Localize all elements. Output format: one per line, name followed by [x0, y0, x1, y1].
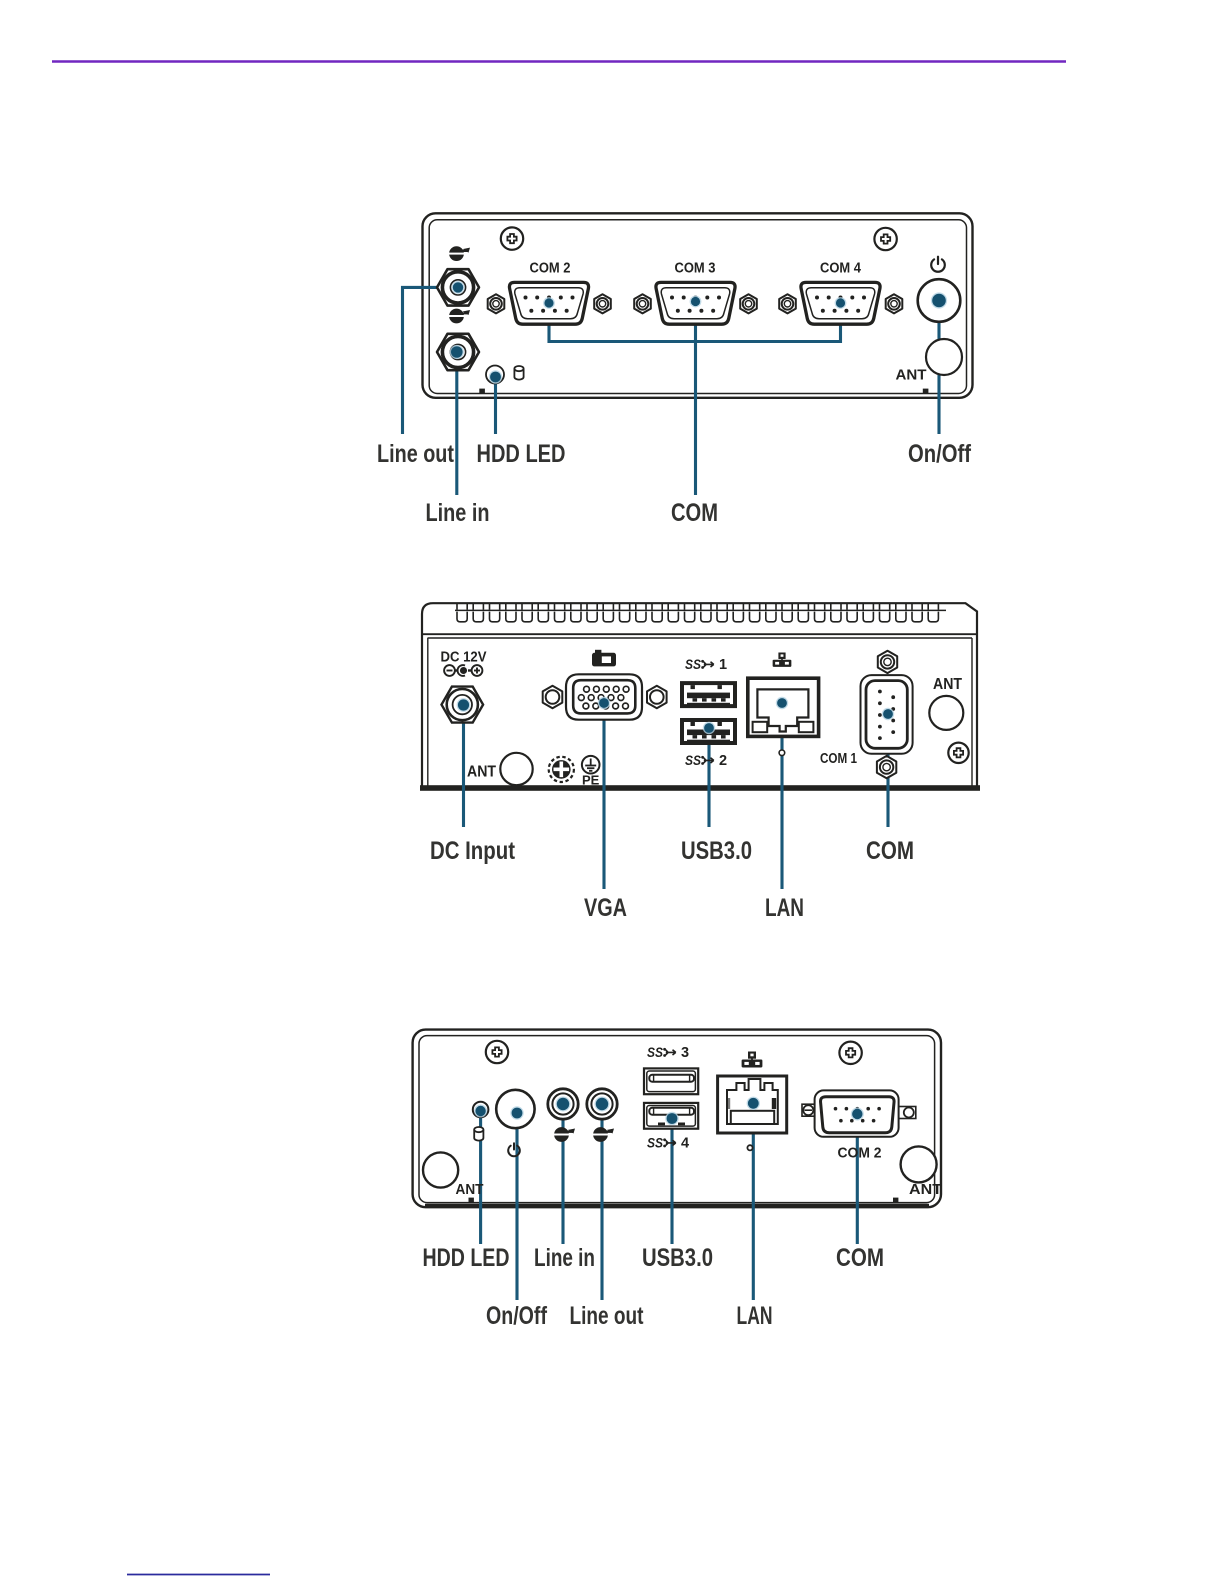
USB port 1 panel2	[680, 681, 737, 708]
svg-text:COM 1: COM 1	[820, 751, 857, 767]
screw panel2 bottom-right	[948, 743, 968, 763]
screw top-left panel1	[501, 227, 523, 249]
LAN network icon	[773, 653, 792, 667]
USB SuperSpeed label 2	[685, 753, 727, 769]
svg-text:On/Off: On/Off	[486, 1302, 548, 1330]
line in icon	[449, 309, 470, 324]
svg-text:ANT: ANT	[933, 676, 962, 693]
line out p3 icon	[593, 1127, 614, 1142]
svg-text:LAN: LAN	[737, 1302, 773, 1330]
DC jack	[442, 687, 484, 723]
svg-text:Line in: Line in	[426, 499, 490, 527]
svg-text:DC 12V: DC 12V	[441, 650, 487, 666]
svg-text:SS: SS	[685, 657, 701, 672]
callout line: USB p3	[670, 1119, 673, 1245]
screw panel3 left	[486, 1041, 508, 1063]
hex nut	[488, 294, 505, 313]
svg-text:SS: SS	[647, 1045, 663, 1060]
callout line: COM1	[886, 714, 889, 827]
power symbol	[931, 257, 945, 272]
callout line: COM p3	[856, 1114, 859, 1244]
svg-text:3: 3	[681, 1045, 689, 1061]
svg-text:COM: COM	[866, 837, 914, 865]
COM 3 connector	[656, 282, 735, 324]
svg-text:USB3.0: USB3.0	[642, 1244, 713, 1272]
header rule (purple)	[52, 60, 1066, 62]
hex nut	[779, 294, 796, 313]
polarity icon	[444, 665, 482, 676]
line in p3 icon	[554, 1127, 575, 1142]
svg-text:COM: COM	[671, 499, 718, 527]
svg-text:DC Input: DC Input	[430, 837, 516, 865]
Line out jack	[437, 269, 479, 305]
callout line: LAN	[780, 703, 783, 889]
USB SuperSpeed label 4	[647, 1136, 689, 1152]
vent slots	[457, 604, 938, 622]
callout line: On/Off p3	[515, 1113, 518, 1300]
svg-text:2: 2	[719, 753, 727, 769]
line out icon	[449, 246, 470, 261]
Line in jack p3	[548, 1089, 578, 1119]
panel 2 top cover with vents	[422, 603, 977, 788]
LAN port panel3	[718, 1076, 787, 1133]
panel 2 face divider	[422, 633, 977, 635]
USB port 4 panel3	[644, 1103, 698, 1129]
callout line: On/Off	[937, 301, 940, 435]
COM 1 connector (vertical DB9)	[861, 675, 913, 754]
LAN network icon	[742, 1052, 763, 1068]
HDD cylinder icon	[514, 366, 523, 380]
svg-text:1: 1	[719, 657, 727, 673]
svg-text:ANT: ANT	[456, 1181, 484, 1198]
callout line: COM (bus)	[549, 303, 841, 342]
panel 1 chassis outline	[423, 213, 973, 397]
callout line: USB3.0	[707, 728, 710, 827]
HDD LED hole panel1	[486, 366, 504, 384]
svg-text:4: 4	[681, 1136, 689, 1152]
svg-text:HDD LED: HDD LED	[423, 1244, 510, 1272]
callout line: HDD LED	[494, 377, 497, 434]
callout line: VGA	[602, 703, 605, 889]
USB SuperSpeed label 3	[647, 1045, 689, 1061]
screw top-right panel1	[874, 228, 896, 250]
ANT hole panel2 right	[929, 696, 963, 730]
footer rule (navy)	[127, 1574, 270, 1576]
hex nut	[594, 294, 611, 313]
Line in jack	[437, 334, 479, 370]
hex nut	[634, 294, 651, 313]
COM 2 connector	[509, 282, 588, 324]
callout line: LAN p3	[752, 1103, 755, 1300]
svg-text:HDD LED: HDD LED	[477, 440, 566, 468]
svg-text:On/Off: On/Off	[908, 440, 972, 468]
svg-text:COM 4: COM 4	[820, 261, 861, 277]
svg-text:ANT: ANT	[909, 1181, 942, 1198]
ANT hole panel3 right	[901, 1146, 937, 1182]
LAN port panel2	[748, 678, 819, 736]
LED hole below LAN	[779, 750, 785, 756]
svg-text:ANT: ANT	[467, 764, 496, 781]
panel 1 bottom notches	[479, 389, 485, 394]
callout line: Line in	[455, 352, 458, 495]
svg-text:Line out: Line out	[570, 1302, 645, 1330]
VGA left nut	[543, 686, 563, 709]
gear screw	[549, 757, 574, 782]
svg-text:COM: COM	[836, 1244, 884, 1272]
svg-text:SS: SS	[647, 1136, 663, 1151]
COM 4 connector	[801, 282, 880, 324]
COM 2 connector panel3	[802, 1090, 916, 1136]
PE ground symbol	[582, 756, 600, 774]
svg-text:PE: PE	[582, 773, 600, 788]
panel 3 bottom notches	[469, 1198, 474, 1203]
Line out jack p3	[587, 1089, 617, 1119]
panel 3 chassis outline	[413, 1030, 941, 1208]
svg-text:COM 2: COM 2	[838, 1146, 882, 1162]
callout line: Line out	[403, 287, 459, 434]
VGA connector	[566, 674, 642, 719]
On/Off button p3	[496, 1090, 534, 1128]
LED hole below LAN p3	[747, 1145, 752, 1150]
power button	[918, 279, 961, 322]
screw panel3 right	[839, 1042, 861, 1064]
svg-text:USB3.0: USB3.0	[681, 837, 752, 865]
callout line: Line in p3	[561, 1104, 564, 1244]
VGA monitor icon	[592, 650, 616, 667]
HDD LED hole p3	[473, 1102, 489, 1118]
USB SuperSpeed label 1	[685, 657, 727, 673]
svg-text:VGA: VGA	[584, 894, 627, 922]
ANT hole panel2 left	[500, 753, 532, 785]
panel 2 bottom edge	[420, 785, 980, 791]
callout line: Line out p3	[600, 1104, 603, 1300]
ANT hole panel3 left	[423, 1152, 458, 1187]
ANT hole panel1	[926, 339, 962, 375]
COM1 top nut	[878, 651, 897, 673]
VGA right nut	[647, 686, 667, 709]
power symbol	[508, 1143, 520, 1156]
COM1 bottom nut	[877, 756, 896, 778]
svg-text:ANT: ANT	[896, 367, 927, 384]
svg-text:Line out: Line out	[377, 440, 455, 468]
svg-text:COM 2: COM 2	[530, 261, 571, 277]
svg-text:COM 3: COM 3	[675, 261, 716, 277]
USB port 3 panel3	[644, 1068, 698, 1094]
hex nut	[886, 294, 903, 313]
svg-text:Line in: Line in	[534, 1244, 595, 1272]
svg-text:LAN: LAN	[765, 894, 804, 922]
HDD cylinder icon	[474, 1127, 483, 1141]
hex nut	[740, 294, 757, 313]
USB port 2 panel2	[680, 718, 737, 745]
svg-text:SS: SS	[685, 753, 701, 768]
callout line: HDD LED p3	[479, 1111, 482, 1244]
callout line: DC Input	[462, 705, 465, 827]
